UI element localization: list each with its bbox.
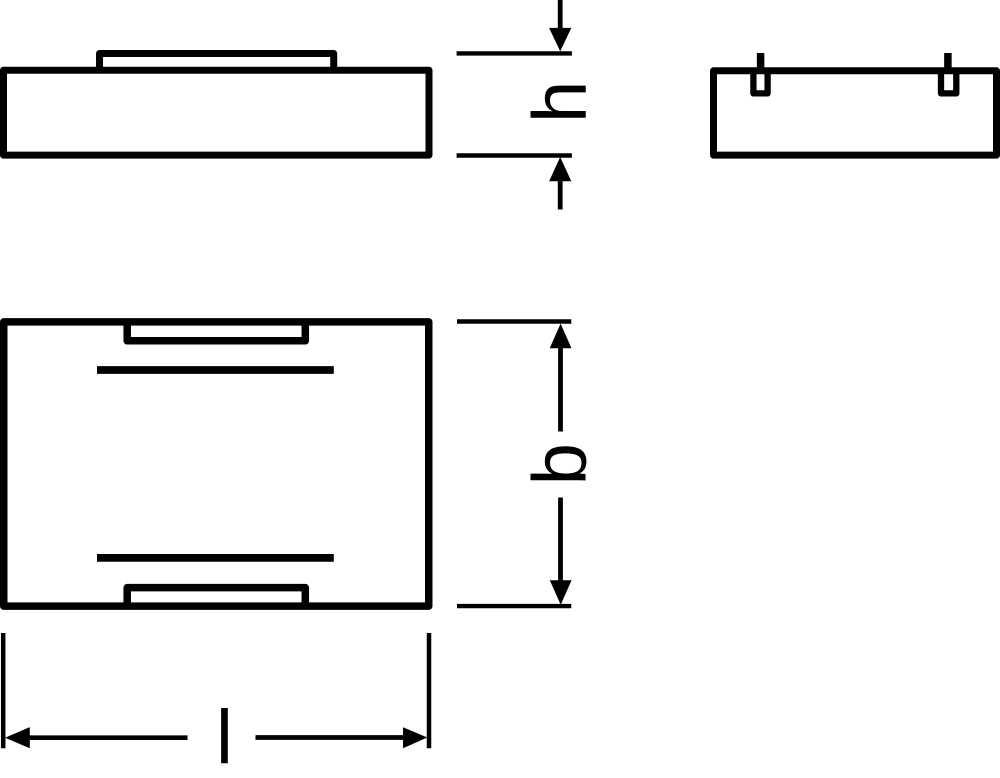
top view upper strip slot line <box>97 366 334 374</box>
end view right pin clip <box>941 70 956 93</box>
dimension l right extension line <box>427 633 432 748</box>
dimension b upper arrowhead <box>550 324 572 349</box>
end view left pin clip <box>753 70 767 93</box>
dimension l right arrowhead <box>403 727 427 748</box>
top view lower strip slot line <box>97 554 334 562</box>
dimension b bottom extension line <box>457 604 571 608</box>
dimension h upper leader line <box>558 0 563 29</box>
dimension label h <box>518 81 603 123</box>
dimension b top extension line <box>457 319 571 323</box>
dimension l right shaft <box>256 735 404 740</box>
top view lower latch tab <box>127 588 305 607</box>
dimension h lower arrowhead <box>549 157 571 181</box>
dimension b lower shaft <box>558 498 563 581</box>
end view right contact pin <box>944 53 952 74</box>
svg-text:b: b <box>518 443 603 485</box>
dimension l left arrowhead <box>5 727 30 748</box>
dimension h lower leader line <box>558 181 563 210</box>
top view upper latch tab <box>127 319 305 341</box>
dimension h bottom extension line <box>457 153 572 157</box>
dimension b lower arrowhead <box>550 580 572 605</box>
dimension h top extension line <box>457 51 572 55</box>
top view housing body <box>4 322 429 606</box>
dimension l left extension line <box>1 633 6 748</box>
svg-text:l: l <box>216 695 233 778</box>
end view left contact pin <box>757 53 765 74</box>
side view top cover plate <box>100 54 334 83</box>
svg-text:h: h <box>518 81 603 123</box>
dimension h upper arrowhead <box>549 28 571 52</box>
dimension b upper shaft <box>558 348 563 432</box>
end view housing body <box>714 71 997 155</box>
dimension l left shaft <box>30 735 188 740</box>
dimension label b <box>518 443 603 485</box>
side view housing body <box>4 70 430 155</box>
